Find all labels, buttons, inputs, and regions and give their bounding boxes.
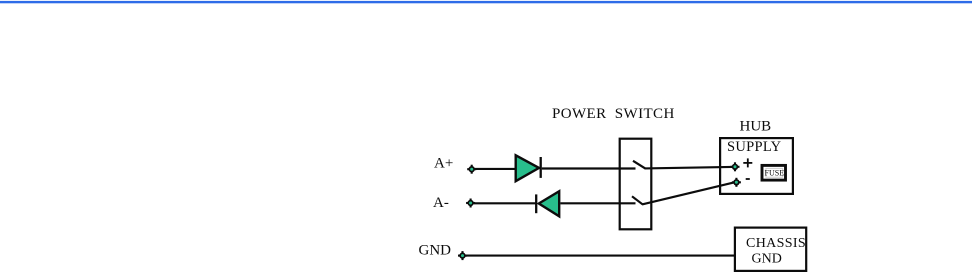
svg-text:A+: A+	[434, 156, 453, 172]
svg-text:A-: A-	[433, 195, 449, 211]
svg-text:GND: GND	[419, 243, 452, 259]
svg-text:HUB: HUB	[740, 118, 772, 134]
svg-text:CHASSIS: CHASSIS	[746, 236, 806, 251]
svg-text:FUSE: FUSE	[765, 169, 785, 178]
svg-text:POWER SWITCH: POWER SWITCH	[552, 106, 675, 122]
svg-text:SUPPLY: SUPPLY	[727, 139, 782, 155]
svg-text:GND: GND	[752, 252, 782, 267]
